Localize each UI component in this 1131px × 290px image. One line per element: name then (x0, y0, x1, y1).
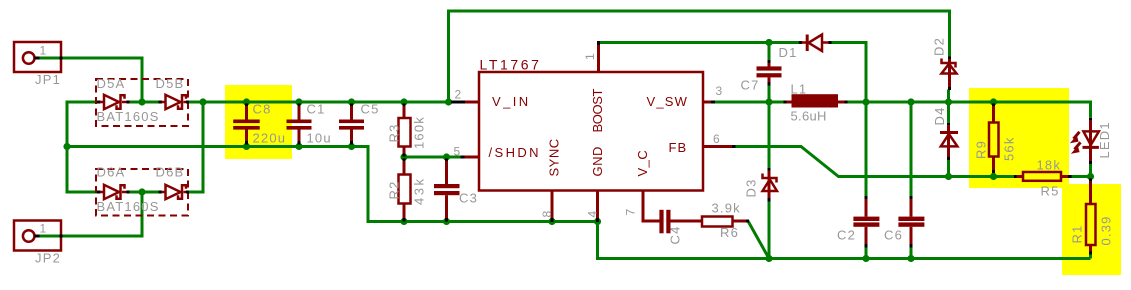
svg-text:3: 3 (716, 84, 723, 98)
junction D6 pair center (138, 188, 145, 195)
diode D2 boost from VIN schottky (932, 37, 957, 90)
junction C3 top on SHDN wire (443, 153, 450, 160)
svg-text:7: 7 (624, 209, 638, 216)
diode D1 boost from VOUT (779, 35, 832, 61)
junction boost drop on VIN rail (445, 98, 452, 105)
svg-text:C3: C3 (459, 191, 478, 206)
wire V_SW pin 3 to L1 (715, 101, 784, 104)
IC pin 1 BOOST (583, 41, 599, 72)
svg-text:L1: L1 (791, 82, 808, 97)
wire between D6A and D6B (129, 191, 162, 194)
svg-text:D3: D3 (744, 178, 759, 197)
junction C1 top (295, 98, 302, 105)
wire diagonal R6 to ground rail (748, 221, 769, 259)
junction LED/R5/R1 node (1087, 173, 1094, 180)
IC pin 5 /SHDN (454, 145, 480, 159)
dual diode D5 dashed package BAT160S (96, 76, 188, 126)
wire JP1 to upper diode-pair junction (39, 58, 142, 102)
wire R1 bottom lead stub (1089, 254, 1092, 259)
svg-text:JP1: JP1 (35, 72, 61, 87)
wire D5B to V_IN rail up to IC pin 2 (188, 101, 453, 104)
diode D6A (97, 185, 130, 199)
wire C7 bottom lead stub (768, 85, 771, 103)
IC pin 8 SYNC (540, 191, 554, 223)
junction VOUT rail R9 top (990, 98, 997, 105)
capacitor C7 boost (741, 60, 782, 93)
resistor R5 18k (1014, 158, 1072, 199)
diode D4 (932, 106, 958, 160)
wire D4 cathode to VOUT rail (947, 102, 950, 123)
capacitor C6 (884, 196, 924, 248)
svg-text:8: 8 (540, 211, 554, 218)
junction C7 top on boost wire (765, 39, 772, 46)
svg-text:1: 1 (40, 222, 47, 236)
junction R3/R2 on SHDN wire (400, 153, 407, 160)
junction C6 bottom ground (907, 255, 914, 262)
resistor R9 56k (974, 104, 1017, 174)
junction R2 bottom (400, 218, 407, 225)
svg-text:43k: 43k (412, 177, 427, 205)
diode D3 catch schottky (744, 168, 778, 202)
capacitor C1 10u (287, 102, 332, 146)
junction V_SW node (765, 98, 772, 105)
svg-text:D6B: D6B (156, 165, 185, 180)
svg-text:BAT160S: BAT160S (97, 199, 160, 214)
wire V_SW node down to D3 cathode (768, 102, 771, 168)
junction FB rail R9 bottom (990, 173, 997, 180)
svg-text:LED1: LED1 (1097, 121, 1112, 158)
svg-text:R1: R1 (1070, 224, 1085, 243)
wire between D5A and D5B (129, 101, 162, 104)
svg-text:BOOST: BOOST (590, 89, 605, 133)
wire LED1 bottom lead stub (1089, 164, 1092, 177)
inductor L1 5.6uH (784, 82, 848, 124)
svg-text:C2: C2 (837, 228, 856, 243)
junction VOUT rail D1/C2 (862, 98, 869, 105)
op-amp/regulator IC U1 LT1767 (479, 57, 703, 191)
svg-text:C5: C5 (361, 102, 380, 117)
junction left anode bus / ground rail (63, 143, 70, 150)
svg-text:V_C: V_C (635, 150, 650, 177)
IC pin 2 V_IN (451, 88, 479, 103)
svg-text:6: 6 (713, 132, 720, 146)
capacitor C5 (339, 102, 380, 145)
diode D5A (97, 95, 130, 109)
svg-text:4: 4 (586, 211, 600, 218)
wire ground bus from left junction through bottom rails (67, 147, 1091, 259)
connector JP1 (14, 42, 63, 87)
svg-text:1: 1 (40, 44, 47, 58)
svg-text:R9: R9 (974, 140, 989, 159)
IC pin 7 V_C (624, 191, 660, 222)
svg-text:V_SW: V_SW (647, 94, 689, 109)
svg-text:R5: R5 (1041, 184, 1060, 199)
svg-text:D4: D4 (932, 106, 947, 125)
capacitor C4 (659, 210, 702, 245)
junction D5B output to VIN rail (199, 98, 206, 105)
svg-text:BAT160S: BAT160S (97, 109, 160, 124)
svg-text:GND: GND (590, 146, 605, 176)
junction VOUT rail C6 (907, 98, 914, 105)
IC pin 6 FB (703, 132, 736, 147)
resistor R1 0.39 (1070, 179, 1114, 255)
svg-text:3.9k: 3.9k (712, 201, 741, 216)
highlight over R9/R5 (969, 88, 1069, 188)
wire BOOST pin 1 to D1 anode line (599, 41, 800, 44)
wire upper row left segment to D5A (66, 101, 99, 104)
diode D6B (159, 185, 190, 199)
svg-text:1: 1 (583, 53, 597, 60)
svg-text:JP2: JP2 (35, 251, 61, 266)
junction VOUT rail D2/D4 (945, 98, 952, 105)
resistor R3 160k (387, 104, 427, 157)
junction C2 bottom ground (862, 255, 869, 262)
junction D5 pair center (138, 98, 145, 105)
svg-text:R3: R3 (387, 123, 402, 142)
IC pin 3 V_SW (703, 84, 723, 102)
junction C8 bottom (243, 143, 250, 150)
wire C6 top lead (910, 102, 913, 197)
wire FB pin 6 with diagonal to FB rail (735, 147, 1014, 177)
junction R3 top (400, 98, 407, 105)
svg-text:D5A: D5A (97, 76, 126, 91)
svg-text:/SHDN: /SHDN (489, 145, 541, 160)
svg-text:R2: R2 (387, 180, 402, 199)
wire D3 anode to ground rail (768, 201, 771, 259)
wire C2 top lead (865, 102, 868, 197)
resistor R2 43k (387, 159, 427, 222)
wire VOUT rail L1 to LED1 top (847, 102, 1091, 118)
capacitor C2 (837, 196, 879, 248)
svg-text:SYNC: SYNC (547, 138, 562, 176)
svg-text:D1: D1 (779, 45, 798, 60)
svg-text:C6: C6 (884, 228, 903, 243)
wire D6B up to V_IN rail (188, 102, 204, 192)
IC pin 4 GND (586, 191, 600, 223)
svg-text:5: 5 (454, 145, 461, 159)
connector JP2 (14, 221, 63, 266)
junction C8 top (243, 98, 250, 105)
svg-text:18k: 18k (1037, 158, 1062, 173)
wire JP2 to lower diode-pair junction (39, 192, 142, 236)
junction D3 anode ground (765, 255, 772, 262)
wire C7 top lead stub (768, 43, 771, 61)
svg-text:C4: C4 (668, 225, 683, 244)
junction C5 bottom (348, 143, 355, 150)
svg-text:220u: 220u (253, 131, 287, 146)
highlight over R1 (1062, 184, 1121, 275)
wire C2 bottom lead (865, 247, 868, 259)
junction pin 8 ground (548, 218, 555, 225)
svg-text:D2: D2 (932, 37, 947, 56)
svg-text:FB: FB (669, 140, 688, 155)
wire C6 bottom lead (910, 247, 913, 259)
svg-text:5.6uH: 5.6uH (791, 109, 827, 124)
svg-text:C7: C7 (741, 78, 760, 93)
junction FB rail D4 bottom (945, 173, 952, 180)
wire D1 right end down to VOUT rail (829, 43, 867, 103)
svg-text:0.39: 0.39 (1099, 215, 1114, 245)
svg-text:2: 2 (455, 88, 462, 102)
junction C5 top (348, 98, 355, 105)
svg-text:C8: C8 (253, 102, 272, 117)
svg-text:D6A: D6A (97, 165, 126, 180)
junction C3 bottom (443, 218, 450, 225)
capacitor C8 220u (233, 102, 286, 146)
resistor R6 3.9k (702, 201, 749, 241)
svg-text:56k: 56k (1002, 136, 1017, 161)
wire lower row left segment to D6A (66, 191, 99, 194)
wire boost top loop VIN to D2 cathode (449, 11, 950, 102)
wire R5 right lead to LED/R1 junction (1071, 175, 1091, 178)
svg-text:D5B: D5B (156, 76, 185, 91)
wire left vertical anode bus (66, 101, 69, 192)
svg-text:10u: 10u (307, 131, 332, 146)
svg-text:C1: C1 (307, 102, 326, 117)
diode D5B (159, 95, 190, 109)
svg-text:LT1767: LT1767 (480, 57, 542, 73)
LED LED1 (1070, 118, 1112, 164)
svg-text:V_IN: V_IN (492, 94, 531, 109)
capacitor C3 (434, 159, 478, 222)
wire R9 bottom lead stub (992, 172, 995, 177)
wire D4 anode to FB rail (947, 160, 950, 177)
dual diode D6 dashed package BAT160S (96, 165, 188, 216)
svg-text:160k: 160k (412, 116, 427, 149)
junction C1 bottom (295, 143, 302, 150)
svg-text:R6: R6 (720, 225, 739, 240)
wire D2 anode to VOUT rail (947, 90, 950, 103)
highlight over C8 (225, 85, 292, 159)
wire /SHDN pin 5 to R3/R2 junction (404, 156, 461, 159)
junction pin 4 ground (594, 218, 601, 225)
